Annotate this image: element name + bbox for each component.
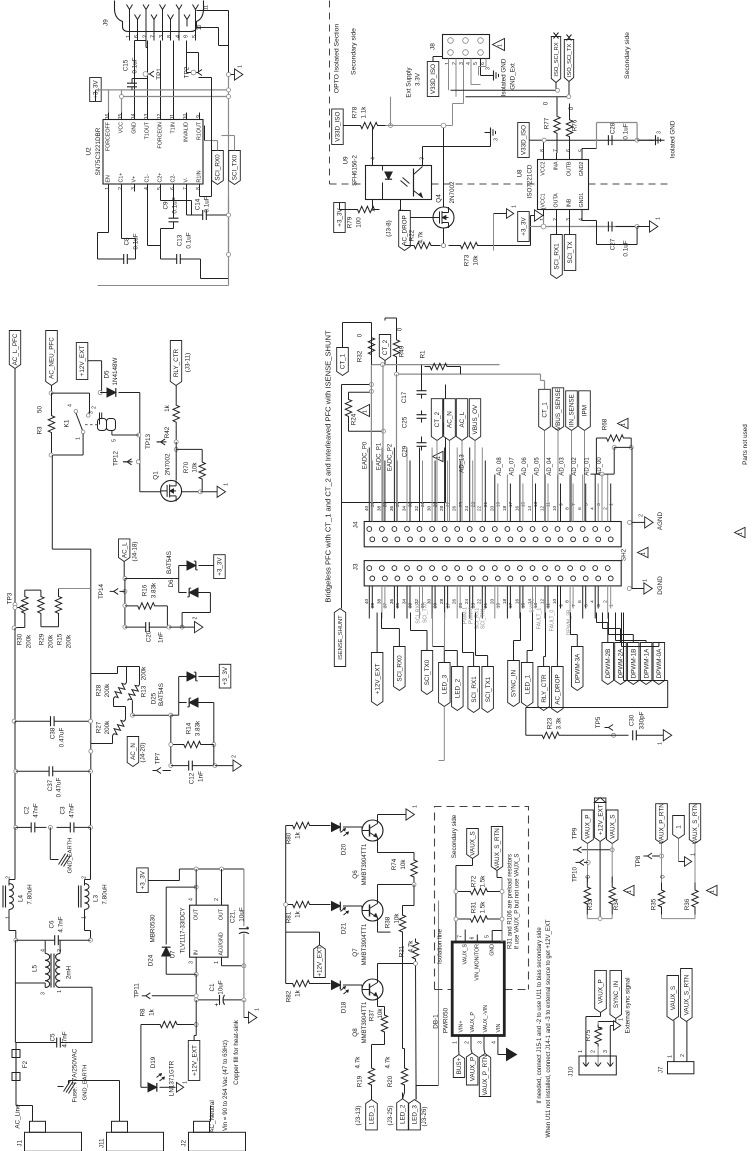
svg-text:1: 1 — [497, 44, 503, 47]
connector J4 box — [364, 522, 621, 547]
svg-text:When U11 not installed, connec: When U11 not installed, connect J14-1 an… — [546, 919, 552, 1138]
module DB-1 PWR050 box — [452, 942, 504, 1036]
label D6 — [166, 551, 175, 588]
svg-text:TLV1117-33IDCY: TLV1117-33IDCY — [181, 907, 187, 953]
svg-text:T1IN: T1IN — [171, 122, 177, 134]
svg-text:Secondary side: Secondary side — [351, 28, 358, 75]
svg-text:VAUX_S_RTN: VAUX_S_RTN — [494, 828, 501, 869]
svg-text:MMBT3904TT1: MMBT3904TT1 — [362, 843, 368, 885]
svg-text:L5: L5 — [32, 965, 39, 973]
text Secondary side (PWR) — [451, 814, 458, 858]
svg-text:6: 6 — [170, 187, 176, 190]
wire right rail — [85, 769, 93, 883]
svg-text:V33D_ISO: V33D_ISO — [521, 125, 528, 155]
net marker triangle 1 (R36) — [707, 885, 718, 895]
ground 1 (Q6) — [406, 805, 419, 820]
svg-text:2: 2 — [118, 187, 124, 190]
resistor R14 3.83k — [171, 720, 214, 748]
svg-text:VAUX_P: VAUX_P — [585, 815, 592, 839]
svg-text:R29: R29 — [39, 633, 46, 645]
svg-text:29: 29 — [433, 603, 439, 609]
svg-text:BAT54S: BAT54S — [166, 551, 173, 574]
resistor R72 1.5k — [456, 875, 502, 895]
svg-text:+12V_EXT: +12V_EXT — [317, 946, 324, 977]
testpoint TP1 — [144, 68, 164, 80]
dashed isolation through U8 — [589, 183, 669, 185]
transistor Q6 MMBT3904 — [352, 820, 383, 885]
junction V33D — [542, 138, 546, 142]
svg-text:17: 17 — [508, 603, 514, 609]
svg-text:C3: C3 — [60, 806, 67, 815]
net flag SCI_RX1 (J3) — [468, 667, 480, 713]
net flag IPM (J4) — [579, 391, 591, 522]
svg-text:4: 4 — [371, 157, 377, 160]
net flag AC_L sense — [119, 539, 139, 579]
diode D25a BAT54S — [171, 672, 220, 715]
svg-text:R24: R24 — [351, 413, 358, 425]
capacitor C15 — [123, 57, 148, 90]
svg-text:Bridgeless PFC with CT_1 and C: Bridgeless PFC with CT_1 and CT_2 and In… — [324, 330, 333, 603]
wire V33D rail — [544, 140, 665, 153]
transistor Q4 2N7002 — [433, 181, 456, 228]
svg-text:4.7nF: 4.7nF — [58, 916, 65, 932]
svg-text:10k: 10k — [400, 859, 407, 870]
svg-text:IIN_SENSE: IIN_SENSE — [569, 394, 576, 427]
net marker triangle 1 (R68) — [618, 418, 629, 428]
svg-text:2: 2 — [452, 62, 458, 65]
svg-text:39: 39 — [370, 502, 376, 508]
junction ACL 1 — [123, 577, 127, 581]
junction ACL 2 — [123, 604, 127, 630]
svg-text:33: 33 — [408, 603, 414, 609]
wire L5 top — [45, 940, 60, 953]
svg-text:3: 3 — [459, 62, 465, 65]
resistor R19 4.7k — [355, 1056, 375, 1093]
svg-text:INVALID: INVALID — [184, 122, 190, 142]
svg-text:(J4-20): (J4-20) — [140, 743, 147, 763]
wire Q4 source — [442, 228, 446, 248]
connector J9 DB9 shell — [115, 1, 204, 32]
svg-text:4.7k: 4.7k — [418, 231, 425, 244]
svg-text:27: 27 — [445, 502, 451, 508]
svg-text:7: 7 — [553, 149, 559, 152]
ic U7 TLV1117 box — [190, 905, 228, 957]
svg-text:R20: R20 — [387, 1075, 394, 1087]
svg-text:+12V_EXT: +12V_EXT — [191, 1045, 198, 1076]
svg-text:1.5k: 1.5k — [480, 901, 487, 914]
svg-text:D5: D5 — [104, 370, 111, 379]
optocoupler U9 SFH6156-2 — [366, 166, 432, 200]
svg-text:15: 15 — [118, 114, 124, 120]
svg-text:3: 3 — [657, 131, 663, 134]
wire relay bottom — [49, 434, 83, 458]
svg-text:VAUX_-VIN: VAUX_-VIN — [483, 1005, 489, 1033]
svg-text:SCI_TX1: SCI_TX1 — [485, 676, 492, 702]
label J3 — [353, 563, 360, 570]
U7 pins — [189, 869, 225, 974]
capacitor C3 — [57, 803, 91, 832]
svg-text:3.3V: 3.3V — [415, 72, 422, 86]
diode D6a BAT54S — [174, 561, 214, 592]
wire pin10 right — [197, 25, 229, 46]
wire R23 loop — [526, 708, 668, 736]
svg-text:25: 25 — [458, 502, 464, 508]
inductor L4 — [3, 876, 34, 919]
wire EADC_P1 bus — [395, 372, 545, 389]
junction D5 anode — [98, 391, 102, 395]
svg-text:DPWM-1B: DPWM-1B — [631, 649, 638, 679]
svg-text:2: 2 — [193, 616, 199, 619]
svg-text:10uF: 10uF — [218, 980, 225, 995]
svg-text:200k: 200k — [104, 720, 111, 735]
svg-text:R42: R42 — [164, 426, 171, 438]
svg-text:AD_08: AD_08 — [497, 457, 503, 476]
resistor R32 0 — [357, 328, 375, 365]
resistor R16 3.83k — [125, 582, 167, 609]
wire Q6 base — [343, 827, 362, 831]
svg-text:7.80uH: 7.80uH — [102, 884, 109, 905]
svg-text:R35: R35 — [651, 898, 658, 910]
wire Q6 emitter — [378, 841, 415, 853]
ground 1 (C30) — [658, 730, 672, 745]
relay K1 contacts — [64, 404, 95, 440]
svg-text:R72: R72 — [471, 875, 478, 887]
svg-text:FORCEOFF: FORCEOFF — [106, 121, 112, 151]
svg-text:R82: R82 — [286, 990, 293, 1002]
svg-text:R70: R70 — [183, 461, 190, 473]
svg-text:15: 15 — [521, 502, 527, 508]
svg-text:3: 3 — [486, 67, 492, 70]
svg-text:4: 4 — [144, 187, 150, 190]
wire D5-Q1 drain — [112, 393, 141, 492]
svg-text:ISENSE_SHUNT: ISENSE_SHUNT — [338, 615, 344, 660]
J9 pin numbers — [126, 35, 198, 38]
wires J3 down — [369, 586, 610, 619]
svg-text:FAULT_1: FAULT_1 — [537, 608, 543, 630]
wires J4 up — [369, 448, 610, 522]
svg-text:DPWM-3A: DPWM-3A — [575, 653, 582, 684]
svg-text:50: 50 — [37, 406, 44, 414]
svg-text:J8: J8 — [430, 43, 437, 50]
svg-text:R79: R79 — [347, 216, 354, 228]
diode D6b BAT54S — [179, 588, 211, 627]
svg-text:27: 27 — [445, 603, 451, 609]
svg-text:R1OUT: R1OUT — [197, 121, 203, 140]
wire 3.3V rail — [96, 90, 229, 113]
junction C1 nodes — [194, 998, 246, 1002]
svg-text:100: 100 — [356, 217, 363, 228]
svg-text:11: 11 — [170, 114, 176, 119]
svg-text:R74: R74 — [391, 858, 398, 870]
svg-text:13: 13 — [144, 114, 150, 120]
svg-text:R31: R31 — [471, 901, 478, 913]
svg-text:3: 3 — [596, 503, 602, 506]
resistor R49 0 — [393, 323, 405, 375]
power flag V33D_ISO (opto) — [332, 109, 353, 145]
svg-text:3: 3 — [596, 604, 602, 607]
svg-text:TP13: TP13 — [145, 433, 152, 449]
capacitor C20 — [125, 622, 169, 643]
svg-text:TP12: TP12 — [113, 450, 120, 466]
resistor R23 3.3k — [526, 717, 576, 739]
svg-text:5: 5 — [583, 604, 589, 607]
wire R chain top — [25, 589, 91, 593]
svg-text:R75: R75 — [585, 1029, 592, 1041]
wire ADJ net — [222, 964, 246, 968]
svg-text:VBUS_SENSE: VBUS_SENSE — [555, 388, 562, 430]
svg-text:U7: U7 — [170, 950, 177, 959]
net flag DPWM-0A (J3) — [653, 643, 665, 685]
power flag +12V_EXT (TP9) — [594, 798, 606, 919]
net flag ISO_SCI_RX — [551, 33, 560, 91]
svg-text:AD_02: AD_02 — [572, 457, 578, 476]
svg-text:C17: C17 — [401, 391, 408, 403]
wire Q1 source-gnd — [182, 483, 230, 498]
power flag +3_3V (opto) — [334, 203, 353, 233]
diode D24 MBR0530 — [148, 887, 197, 974]
junctions RS232 — [120, 70, 231, 256]
svg-text:200k: 200k — [66, 634, 73, 649]
resistor R27 200k — [96, 720, 126, 736]
wire EADC_P0 bus — [371, 363, 499, 367]
wire R37 down — [372, 1041, 385, 1061]
junction C2C3 — [48, 825, 52, 829]
svg-text:T1OUT: T1OUT — [145, 121, 151, 139]
svg-text:R37: R37 — [369, 1009, 376, 1021]
svg-text:2: 2 — [6, 876, 12, 879]
wire rail2 — [122, 97, 229, 113]
svg-text:19: 19 — [496, 603, 502, 609]
svg-text:47nF: 47nF — [69, 803, 76, 818]
svg-text:0.47uF: 0.47uF — [56, 778, 63, 798]
net flag CT_2 (J4) — [431, 399, 442, 522]
net flag VAUX_P_RTN (PWR) — [479, 1050, 490, 1097]
net flag LED_3 (J3) — [439, 663, 451, 761]
net flag ISO_SCI_TX — [564, 35, 573, 97]
svg-text:4.7k: 4.7k — [385, 1056, 392, 1069]
svg-text:AC_Line: AC_Line — [15, 1104, 22, 1129]
svg-text:200k: 200k — [48, 634, 55, 649]
svg-text:+12V_EXT: +12V_EXT — [597, 804, 604, 835]
svg-text:PWR050: PWR050 — [443, 1007, 450, 1033]
svg-text:+: + — [246, 926, 252, 930]
resistor R79 100 — [347, 206, 380, 228]
net flag AC_N (J4) — [444, 399, 456, 522]
svg-text:C12: C12 — [189, 772, 196, 784]
testpoint TP2 — [184, 53, 203, 79]
svg-text:2mH: 2mH — [66, 965, 73, 979]
svg-text:FORCEON: FORCEON — [158, 122, 164, 149]
svg-text:D19: D19 — [150, 1056, 157, 1068]
svg-text:5: 5 — [112, 439, 118, 442]
svg-text:SYNC_IN: SYNC_IN — [511, 669, 518, 697]
ic U2 SN75C3221DBR box — [103, 120, 203, 185]
net flag VAUX_P (J10) — [586, 970, 606, 1066]
svg-text:External sync signal: External sync signal — [625, 978, 632, 1034]
svg-text:0: 0 — [568, 106, 575, 110]
svg-text:R32: R32 — [357, 350, 364, 362]
wire R1IN net — [199, 78, 212, 197]
svg-text:GND1: GND1 — [579, 193, 585, 208]
svg-text:K1: K1 — [64, 419, 71, 427]
svg-text:R78: R78 — [352, 106, 359, 118]
svg-text:GND2: GND2 — [579, 161, 585, 176]
wire EADC P1 vert — [382, 365, 384, 522]
svg-text:1: 1 — [619, 1018, 625, 1021]
text Isolated GND (J8) — [501, 58, 517, 96]
svg-text:(J3-26): (J3-26) — [421, 1107, 428, 1127]
net marker triangle 1 (C29) — [433, 451, 444, 461]
net flag DPWM-1A (J3) — [640, 643, 652, 685]
svg-text:3: 3 — [189, 961, 195, 964]
svg-text:2: 2 — [214, 898, 220, 901]
svg-text:F2: F2 — [22, 1060, 29, 1068]
svg-text:LED_3: LED_3 — [412, 1105, 419, 1125]
junction R78 — [389, 124, 393, 128]
U2 bottom pins — [105, 170, 203, 191]
svg-text:10: 10 — [183, 114, 189, 120]
wire C8 net — [98, 192, 136, 260]
svg-text:J11: J11 — [99, 1138, 106, 1148]
svg-text:17: 17 — [508, 502, 514, 508]
earth GND_EARTH (filter) — [50, 827, 73, 873]
power flag V33D_ISO (J8) — [427, 57, 442, 97]
junction C12 right — [213, 745, 233, 768]
ground 3 (J8) — [481, 59, 499, 81]
resistor R22 4.7k — [405, 229, 441, 248]
svg-text:SCI_TX0: SCI_TX0 — [424, 659, 431, 685]
svg-text:AC_L: AC_L — [121, 542, 128, 558]
wire DPWM0A long — [624, 613, 668, 708]
svg-text:2N7002: 2N7002 — [165, 453, 172, 476]
net flag SYNC_IN (J10) — [598, 970, 621, 1024]
svg-text:SCI_TX0: SCI_TX0 — [232, 154, 239, 180]
svg-text:GND_EARTH: GND_EARTH — [83, 1065, 89, 1101]
svg-text:3.83k: 3.83k — [195, 720, 202, 736]
wire L3 bottom — [85, 914, 93, 943]
svg-text:1: 1 — [214, 961, 220, 964]
power flag +3_3V (TLV) — [137, 868, 180, 893]
capacitor C28 — [608, 122, 629, 145]
label AD_13 — [460, 454, 466, 473]
capacitor C38 — [15, 716, 91, 747]
label U2 — [86, 127, 103, 175]
svg-text:AC_N: AC_N — [447, 411, 454, 428]
svg-text:C38: C38 — [50, 727, 57, 739]
svg-text:3: 3 — [41, 992, 47, 995]
svg-text:Isolated GND: Isolated GND — [670, 120, 677, 158]
svg-text:1k: 1k — [295, 910, 302, 918]
wire Q7 collector — [377, 883, 416, 901]
svg-text:OUT: OUT — [194, 908, 200, 920]
resistor R78 1.1k — [352, 106, 386, 129]
svg-text:1: 1 — [578, 1050, 584, 1053]
net flag CT_1 — [337, 323, 372, 376]
svg-text:4: 4 — [189, 898, 195, 901]
label U8 — [517, 164, 534, 198]
svg-text:1: 1 — [362, 410, 368, 413]
junction ISO TX — [567, 95, 571, 99]
svg-text:J4: J4 — [353, 521, 360, 528]
net flag IIN_SENSE (J4) — [566, 391, 578, 522]
svg-text:VAUX_S: VAUX_S — [670, 986, 677, 1010]
svg-text:D25: D25 — [151, 692, 158, 704]
svg-text:Isolation line: Isolation line — [437, 929, 444, 965]
net flag SCI_TX0 (J3) — [421, 651, 432, 695]
svg-text:R80: R80 — [286, 832, 293, 844]
svg-text:1k: 1k — [164, 404, 171, 412]
net marker triangle 1 (parts) — [735, 527, 746, 537]
svg-text:R68: R68 — [602, 418, 609, 430]
U8 top pins — [540, 149, 585, 176]
net marker triangle 1 (SH2) — [638, 547, 649, 557]
svg-text:Q4: Q4 — [436, 194, 443, 203]
svg-text:0: 0 — [598, 1026, 605, 1030]
junction U7 in — [194, 972, 198, 976]
svg-text:9: 9 — [184, 35, 190, 38]
svg-text:SCI_RX0: SCI_RX0 — [215, 154, 222, 181]
wire Q6 collector — [377, 814, 406, 820]
junction U8 vcc1 — [541, 224, 546, 229]
svg-text:1: 1 — [627, 890, 633, 893]
net marker triangle 1 (R34) — [624, 885, 635, 895]
svg-text:9: 9 — [558, 503, 564, 506]
svg-text:15: 15 — [521, 603, 527, 609]
resistor R68 — [602, 418, 634, 449]
net flag LED_3 (drv) — [409, 901, 439, 1130]
svg-text:BUS+: BUS+ — [456, 1057, 463, 1074]
svg-text:0: 0 — [660, 875, 667, 879]
svg-text:CT_2: CT_2 — [382, 339, 389, 355]
svg-text:1.5k: 1.5k — [480, 875, 487, 888]
svg-text:VCC1: VCC1 — [541, 193, 547, 207]
svg-text:R34: R34 — [613, 898, 620, 910]
svg-text:21: 21 — [483, 603, 489, 609]
svg-text:(J4-18): (J4-18) — [132, 542, 139, 562]
svg-text:31: 31 — [420, 502, 426, 508]
wire Q8 emitter — [378, 1000, 385, 1007]
label J4 — [353, 521, 360, 528]
net flag SCI_RX0 (J3) — [394, 647, 406, 691]
svg-text:DPWM-0A: DPWM-0A — [656, 648, 663, 679]
testpoint TP14 — [98, 583, 127, 599]
power flag +3_3V (D25) — [219, 664, 231, 688]
text AC_Neutral — [209, 1100, 216, 1133]
svg-text:GND_Ext: GND_Ext — [510, 63, 517, 90]
capacitor C13 — [161, 232, 201, 264]
svg-text:3: 3 — [478, 1041, 484, 1044]
svg-text:R49: R49 — [399, 345, 406, 357]
svg-text:SCI_TX: SCI_TX — [567, 241, 574, 264]
J9 pins prongs — [127, 5, 199, 27]
wire J9.3->U2.13 — [146, 41, 148, 113]
svg-text:C9: C9 — [163, 201, 170, 210]
capacitor C21 — [230, 869, 252, 1000]
net marker triangle 1 (C17) — [433, 399, 444, 409]
svg-text:10k: 10k — [377, 1008, 384, 1019]
svg-text:3: 3 — [131, 187, 137, 190]
capacitor C29 — [402, 437, 427, 458]
svg-text:C2-: C2- — [171, 174, 177, 183]
ground 1 (D19) — [177, 1081, 189, 1092]
svg-text:7.80uH: 7.80uH — [27, 884, 34, 905]
power flag +12V_EXT (TLV) — [188, 1036, 200, 1081]
capacitor C2 — [16, 803, 47, 832]
svg-text:5: 5 — [473, 62, 479, 65]
net marker triangle 1 (R24) — [358, 405, 370, 417]
wire J9.2->U2.14 — [135, 41, 147, 113]
net flag +12V_EXT (J3) — [371, 653, 383, 706]
